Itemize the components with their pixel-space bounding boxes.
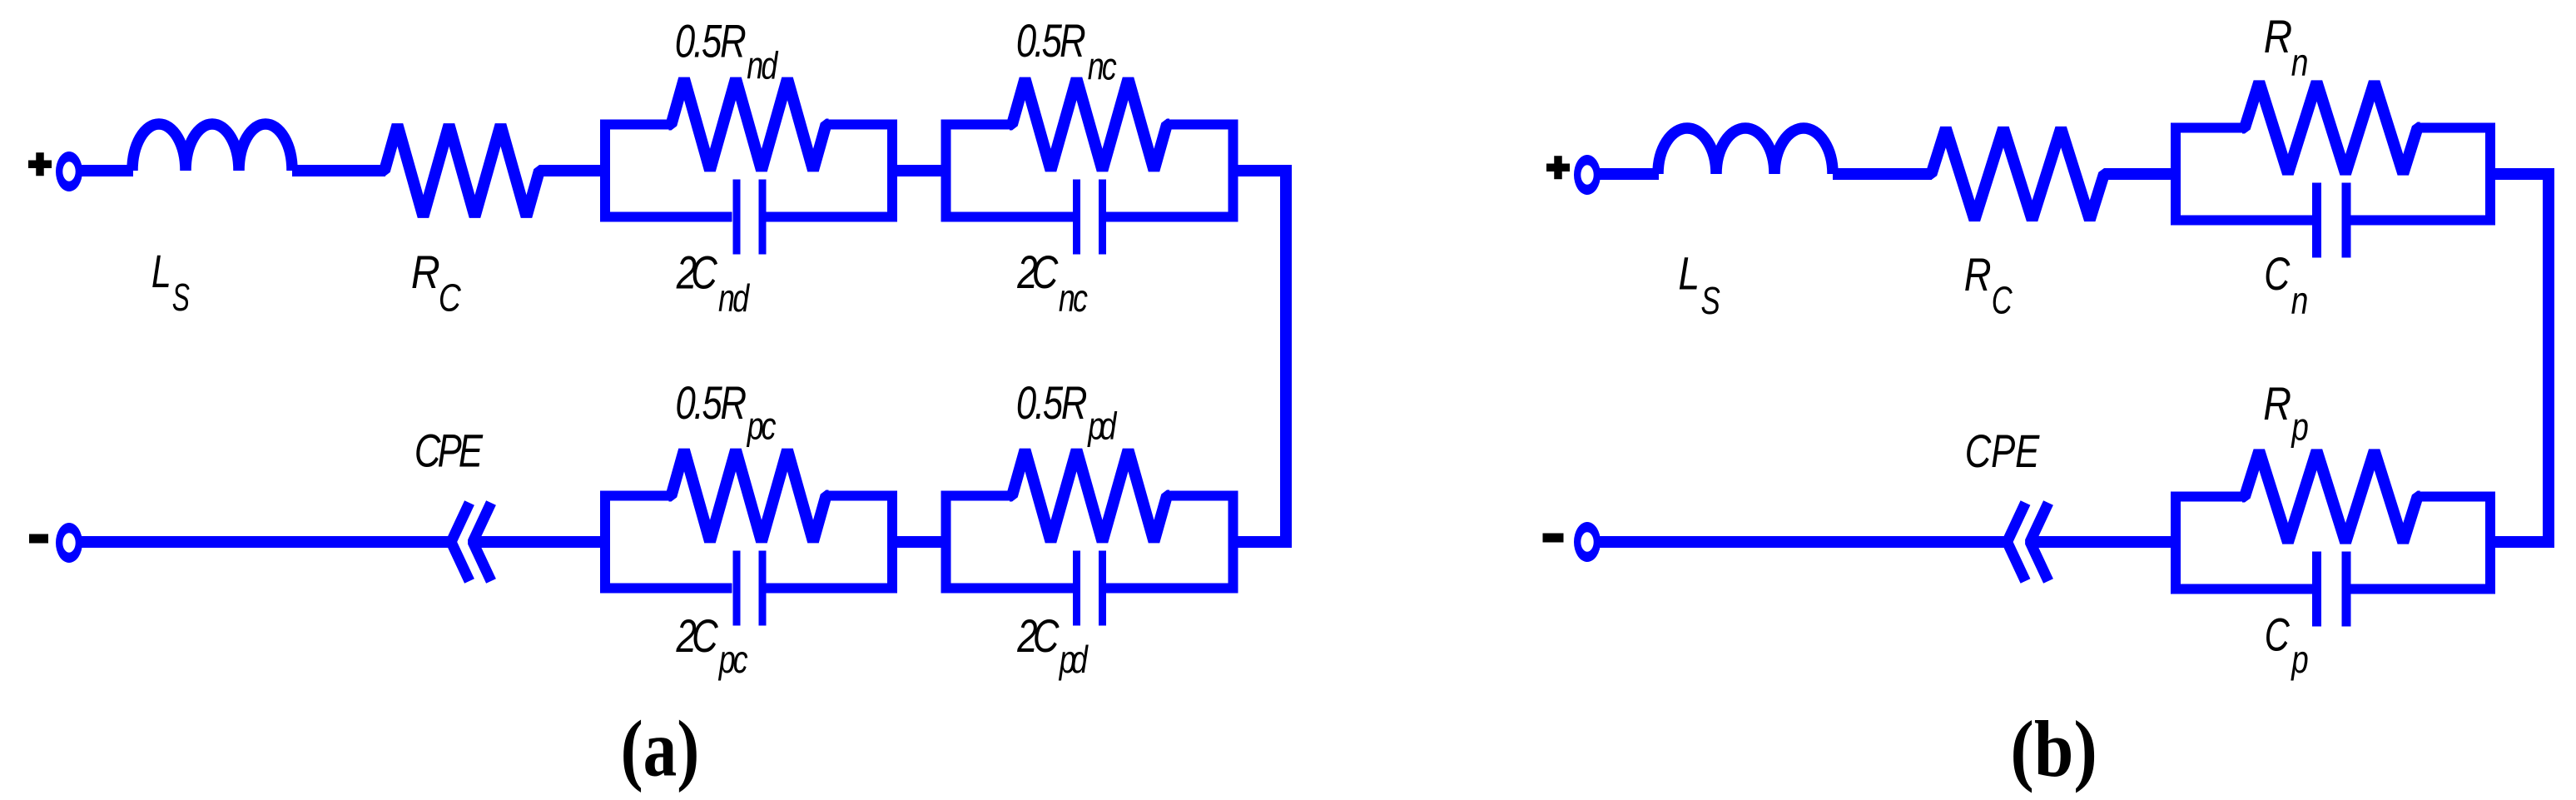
right bar (887, 120, 897, 222)
bottom branch right segment (766, 584, 898, 594)
bottom branch right segment (766, 212, 898, 222)
svg-text:2C: 2C (1016, 246, 1058, 298)
wire (1597, 168, 1659, 180)
svg-text:pc: pc (717, 639, 748, 681)
svg-text:L: L (151, 246, 171, 298)
svg-text:L: L (1678, 246, 1700, 299)
top branch right segment (2418, 492, 2495, 502)
wire (2104, 168, 2176, 180)
svg-text:nd: nd (747, 44, 779, 87)
minus terminal symbol (a) (29, 534, 48, 544)
svg-text:R: R (411, 247, 440, 299)
resistor 0.5Rnd zigzag (669, 79, 829, 171)
svg-text:p: p (2291, 405, 2309, 449)
svg-text:(b): (b) (2010, 704, 2097, 793)
svg-text:2C: 2C (676, 610, 719, 662)
bottom branch right segment (2351, 584, 2496, 594)
CPE element (a) double chevron (451, 503, 469, 581)
capacitor Cn plates (2312, 183, 2321, 258)
svg-text:CPE: CPE (414, 425, 484, 476)
left bar (600, 491, 610, 594)
svg-text:pc: pc (746, 405, 777, 447)
svg-text:pd: pd (1087, 405, 1119, 447)
svg-text:R: R (2263, 377, 2291, 430)
svg-text:C: C (2265, 609, 2290, 661)
svg-text:nd: nd (718, 277, 751, 320)
wire (1833, 168, 1932, 180)
svg-text:0.5R: 0.5R (1016, 15, 1086, 67)
svg-text:nc: nc (1088, 45, 1117, 87)
parallel block 0.5Rnc / 2Cnc (941, 79, 1238, 255)
bottom branch right segment (1106, 212, 1238, 222)
parallel block 0.5Rpc / 2Cpc (600, 450, 897, 626)
wire (539, 165, 606, 176)
svg-text:R: R (1964, 248, 1992, 301)
bottom branch left segment (941, 584, 1074, 594)
svg-text:n: n (2291, 279, 2309, 322)
svg-text:0.5R: 0.5R (676, 377, 747, 429)
svg-text:nc: nc (1059, 277, 1088, 320)
resistor 0.5Rnc zigzag (1010, 79, 1169, 171)
capacitor 2Cpd plates (1073, 551, 1080, 626)
parallel block Rp / Cp (2171, 451, 2495, 627)
bottom branch right segment (2351, 216, 2496, 226)
left bar (2171, 492, 2181, 594)
svg-text:2C: 2C (676, 246, 717, 298)
svg-text:CPE: CPE (1965, 425, 2040, 477)
CPE element (b) double chevron (2008, 503, 2026, 581)
inductor LS (b) (1658, 128, 1833, 174)
right bar (2485, 123, 2495, 226)
parallel block 0.5Rnd / 2Cnd (600, 79, 897, 255)
terminal node - (b) open circle (1574, 522, 1601, 562)
wire (292, 165, 385, 176)
right link wire top-to-bottom (a) (1233, 171, 1286, 542)
right bar (1228, 491, 1238, 594)
top branch left segment (2171, 123, 2246, 133)
top branch right segment (826, 120, 898, 130)
resistor Rp zigzag (2242, 451, 2420, 543)
terminal node - (a) open circle (56, 523, 82, 563)
bottom branch left segment (2171, 584, 2312, 594)
svg-text:C: C (1992, 279, 2013, 322)
wire (473, 536, 606, 548)
wire between blocks (892, 165, 946, 176)
top branch left segment (941, 491, 1013, 501)
wire (2030, 536, 2176, 548)
terminal node + (b) open circle (1574, 155, 1601, 195)
top branch left segment (2171, 492, 2246, 502)
top branch left segment (941, 120, 1013, 130)
top branch right segment (1167, 491, 1238, 501)
capacitor 2Cpc plates (733, 551, 741, 626)
wire (79, 165, 133, 176)
terminal node + (a) open circle (56, 152, 82, 191)
plus terminal symbol (a) (28, 152, 52, 176)
left bar (2171, 123, 2181, 226)
resistor 0.5Rpd zigzag (1010, 450, 1169, 542)
right link wire top-to-bottom (b) (2489, 174, 2549, 542)
svg-text:S: S (172, 276, 190, 319)
svg-text:(a): (a) (621, 705, 700, 793)
capacitor Cp plates (2312, 552, 2321, 627)
bottom branch left segment (941, 212, 1074, 222)
top branch right segment (1167, 120, 1238, 130)
svg-text:C: C (439, 276, 462, 320)
capacitor 2Cnc plates (1073, 180, 1080, 255)
svg-text:n: n (2291, 41, 2309, 84)
capacitor 2Cnd plates (733, 180, 741, 255)
left bar (600, 120, 610, 222)
svg-text:0.5R: 0.5R (1016, 377, 1088, 429)
parallel block Rn / Cn (2171, 82, 2495, 258)
resistor Rn zigzag (2242, 82, 2420, 174)
resistor RC (a) (382, 125, 542, 216)
resistor RC (b) (1929, 128, 2107, 220)
bottom branch left segment (600, 584, 732, 594)
wire (79, 536, 456, 548)
svg-text:2C: 2C (1016, 610, 1060, 662)
right bar (887, 491, 897, 594)
parallel block 0.5Rpd / 2Cpd (941, 450, 1238, 626)
right bar (1228, 120, 1238, 222)
top branch left segment (600, 120, 672, 130)
left bar (941, 120, 951, 222)
top branch right segment (826, 491, 898, 501)
wire (1597, 536, 2012, 548)
inductor LS (a) (132, 124, 292, 171)
svg-text:0.5R: 0.5R (675, 15, 747, 67)
bottom branch right segment (1106, 584, 1238, 594)
svg-text:pd: pd (1058, 639, 1089, 681)
svg-text:S: S (1701, 279, 1720, 322)
left bar (941, 491, 951, 594)
wire between blocks (892, 536, 946, 548)
right bar (2485, 492, 2495, 594)
bottom branch left segment (2171, 216, 2312, 226)
top branch left segment (600, 491, 672, 501)
resistor 0.5Rpc zigzag (669, 450, 829, 542)
minus terminal symbol (b) (1543, 534, 1564, 543)
svg-text:p: p (2291, 638, 2309, 681)
svg-text:C: C (2264, 247, 2291, 300)
top branch right segment (2418, 123, 2495, 133)
svg-text:R: R (2264, 11, 2292, 62)
plus terminal symbol (b) (1546, 156, 1570, 179)
bottom branch left segment (600, 212, 732, 222)
